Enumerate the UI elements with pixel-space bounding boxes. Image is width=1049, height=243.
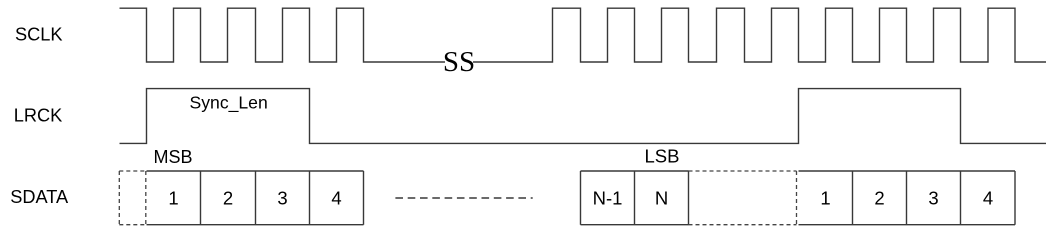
svg-text:Sync_Len: Sync_Len: [190, 92, 268, 113]
svg-text:N: N: [655, 187, 668, 208]
wire SDATA bit cells N-1,N: [581, 171, 689, 225]
wire SDATA bit cells 1-4 right group: [799, 171, 1016, 225]
svg-text:1: 1: [820, 187, 830, 208]
svg-text:2: 2: [874, 187, 884, 208]
svg-text:SS: SS: [443, 46, 475, 78]
wire SDATA leading dashed box: [119, 171, 146, 225]
wire SCLK waveform right group: [473, 8, 1046, 62]
wire SCLK waveform left group: [120, 8, 446, 62]
svg-text:1: 1: [168, 187, 178, 208]
svg-text:SCLK: SCLK: [15, 24, 63, 44]
svg-text:LRCK: LRCK: [14, 105, 63, 125]
wire SDATA continuation dashes: [395, 197, 532, 199]
svg-text:4: 4: [983, 187, 993, 208]
svg-text:2: 2: [223, 187, 233, 208]
svg-text:MSB: MSB: [154, 147, 193, 167]
wire LRCK waveform: [120, 89, 1047, 144]
svg-text:4: 4: [331, 187, 341, 208]
svg-text:LSB: LSB: [645, 146, 680, 167]
svg-text:3: 3: [928, 187, 938, 208]
wire SDATA bit cells 1-4 left group: [147, 171, 364, 225]
svg-text:SDATA: SDATA: [10, 187, 69, 207]
svg-text:3: 3: [277, 187, 287, 208]
wire SDATA trailing dashed cell: [689, 171, 797, 225]
svg-text:N-1: N-1: [593, 187, 623, 208]
